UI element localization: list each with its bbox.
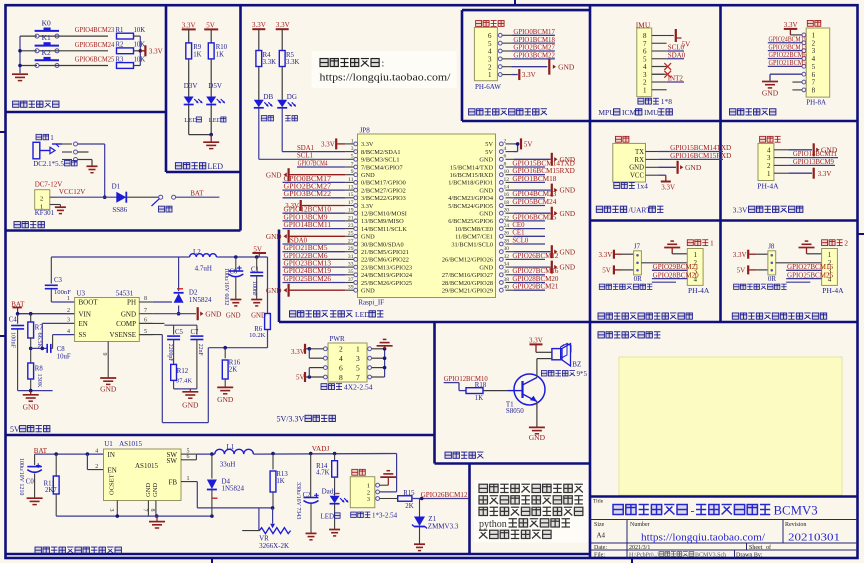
svg-text:10K: 10K xyxy=(134,27,146,34)
ground - buzzer xyxy=(529,427,546,441)
JP8 pin 11 (left) xyxy=(345,177,405,187)
capacitor C5 xyxy=(167,329,184,362)
svg-text:26/BCM12/GPIO26: 26/BCM12/GPIO26 xyxy=(442,257,493,264)
svg-text:35: 35 xyxy=(348,269,354,275)
block border - central right edge / right column divider xyxy=(589,6,592,558)
svg-text:A4: A4 xyxy=(597,532,606,540)
svg-text:9/BCM3/SCL1: 9/BCM3/SCL1 xyxy=(361,157,400,164)
svg-text:28: 28 xyxy=(504,238,510,244)
connector JP8 Raspi_IF body xyxy=(358,126,496,306)
svg-text:1: 1 xyxy=(351,138,354,144)
svg-text:6: 6 xyxy=(144,318,147,324)
resistor R10 xyxy=(208,43,227,59)
label IMU net xyxy=(636,20,651,29)
svg-text:54531: 54531 xyxy=(116,289,134,297)
svg-text:1: 1 xyxy=(828,251,832,259)
svg-text:39: 39 xyxy=(348,285,354,291)
svg-text:GND: GND xyxy=(479,187,493,194)
svg-text:GND: GND xyxy=(266,171,282,179)
BT pin VCC xyxy=(630,173,658,180)
svg-text:14/BCM11/SCLK: 14/BCM11/SCLK xyxy=(361,226,407,233)
junction rail C6 xyxy=(234,255,238,259)
svg-text:22: 22 xyxy=(504,215,510,221)
svg-text:D3V: D3V xyxy=(184,82,198,90)
caption servo block xyxy=(35,547,121,553)
svg-text:GPIO2BCM27: GPIO2BCM27 xyxy=(513,45,555,52)
PWR pin 3 xyxy=(356,354,372,363)
svg-text:13/BCM9/MISO: 13/BCM9/MISO xyxy=(361,218,404,225)
JP8 pin 2 (right) xyxy=(485,138,514,148)
JP8 pin 22 (right) xyxy=(448,215,514,225)
svg-text:PH-4A: PH-4A xyxy=(688,286,710,295)
connector BT header body xyxy=(613,143,646,182)
svg-text:1: 1 xyxy=(694,251,698,259)
JP8 pin 20 (right) xyxy=(479,208,514,218)
caption raspi block xyxy=(290,310,384,319)
JP8 pin 3 (left) xyxy=(345,146,400,156)
svg-text:GPIO24BCM19: GPIO24BCM19 xyxy=(284,268,332,275)
resistor R12 xyxy=(171,340,193,389)
connector PH-8A body xyxy=(806,28,830,106)
svg-text:C2: C2 xyxy=(303,492,312,499)
caption button block xyxy=(13,101,59,107)
net label BAT (servo) xyxy=(34,447,48,455)
svg-text:C4: C4 xyxy=(9,316,18,323)
wire J7 out to encoder1 xyxy=(641,262,687,264)
PH-6AW pin 3 xyxy=(488,55,511,63)
junction PH node xyxy=(177,300,181,304)
label Dadj LED red xyxy=(321,512,341,520)
svg-text:/UART: /UART xyxy=(629,205,651,214)
svg-text:GPIO25BCM26: GPIO25BCM26 xyxy=(284,276,332,283)
svg-text:2K: 2K xyxy=(405,503,413,510)
svg-text:3.3V: 3.3V xyxy=(182,21,196,29)
wire jack pin3 to ground xyxy=(78,160,92,166)
IMU pin 5 xyxy=(643,55,667,63)
net label GPIO25BCM26 xyxy=(283,276,346,283)
resistor R2 xyxy=(116,42,146,54)
capacitor C2 electrolytic xyxy=(295,454,319,533)
svg-text:0R: 0R xyxy=(768,275,777,283)
BT pin TX xyxy=(635,149,658,156)
svg-text:R18: R18 xyxy=(475,382,487,389)
svg-text:10K: 10K xyxy=(134,42,146,49)
svg-text:1K: 1K xyxy=(475,395,483,402)
ground - KF301 xyxy=(55,207,66,213)
svg-text:GND: GND xyxy=(361,234,375,241)
wire switch node riser xyxy=(178,257,180,314)
JP8 pin 24 (right) xyxy=(455,223,514,233)
power 3.3V - LED block xyxy=(182,21,196,43)
JP8 pin 21 (left) xyxy=(345,215,404,225)
svg-text:GPIO2BCM27: GPIO2BCM27 xyxy=(284,184,332,191)
wire PWR right bus xyxy=(372,347,387,377)
svg-text:32: 32 xyxy=(504,254,510,260)
label LED red D3V xyxy=(184,117,201,124)
ground - DC jack xyxy=(87,166,98,172)
net label GPIO1BCM18 xyxy=(512,176,557,183)
label servo net xyxy=(352,469,366,475)
no-connect IMU pin3 xyxy=(652,71,671,78)
svg-text:3: 3 xyxy=(351,146,354,152)
svg-text:Sheet: Sheet xyxy=(749,545,763,551)
power 3.3V - IR pin1 xyxy=(511,69,536,80)
svg-text:0R: 0R xyxy=(634,275,643,283)
junction VADJ C2 xyxy=(309,452,313,456)
svg-text:2021/3/1: 2021/3/1 xyxy=(629,545,650,551)
resistor R8 xyxy=(28,363,44,391)
label PWR socket xyxy=(321,383,373,392)
PH-8A pin 4 xyxy=(802,55,816,63)
svg-text:R3: R3 xyxy=(116,56,125,63)
power 5V - LED block xyxy=(204,21,218,43)
wire R4 to LED xyxy=(258,67,260,100)
net label CE0 xyxy=(512,222,545,229)
svg-text:2K: 2K xyxy=(229,367,237,374)
svg-text:3/BCM22/GPIO3: 3/BCM22/GPIO3 xyxy=(361,195,406,202)
net label GPIO23BCM13 (motor) xyxy=(768,44,807,51)
svg-text:PH-4A: PH-4A xyxy=(757,181,779,190)
power 3.3V - BT VCC xyxy=(658,175,675,191)
transistor T1 S8050 xyxy=(506,374,545,415)
U1 pin 6 SW xyxy=(167,454,197,465)
caption encoder1 block xyxy=(598,313,692,319)
svg-text:TX: TX xyxy=(635,149,644,156)
wire R7-R8 divider xyxy=(30,338,32,363)
jumper resistor J8 0R xyxy=(768,242,777,283)
svg-text:SDA0: SDA0 xyxy=(668,51,686,59)
svg-text:GND: GND xyxy=(479,211,493,218)
svg-text:LED: LED xyxy=(184,117,197,124)
label IMU socket xyxy=(638,97,672,106)
power 3.3V - PWR xyxy=(291,344,323,358)
JP8 pin 39 (left) xyxy=(345,285,375,295)
svg-text:GPIO5BCM24: GPIO5BCM24 xyxy=(75,42,115,49)
connector KF301 xyxy=(35,190,61,211)
BT pin RX xyxy=(635,157,659,164)
wire LED D5V down xyxy=(210,105,212,135)
svg-text:100nF: 100nF xyxy=(251,281,257,297)
regulator U1 AS1015 body xyxy=(104,440,182,501)
LED Dadj xyxy=(322,487,349,529)
svg-text:24: 24 xyxy=(504,223,510,229)
U3 pin 4 SS xyxy=(67,329,86,339)
capacitor C8 xyxy=(47,335,74,361)
power 5V - J8 xyxy=(737,265,768,274)
wire EN tap xyxy=(31,323,75,348)
svg-text:3.3V: 3.3V xyxy=(291,348,305,356)
svg-text:D5V: D5V xyxy=(208,82,222,90)
power GND - JP8 pin20 xyxy=(514,207,575,220)
JP8 pin 34 (right) xyxy=(479,262,514,272)
svg-text:10: 10 xyxy=(504,169,510,175)
svg-text:5V: 5V xyxy=(10,425,20,434)
svg-text:C7: C7 xyxy=(191,329,200,336)
svg-text:3: 3 xyxy=(67,318,70,324)
svg-text:GPIO26BCM12: GPIO26BCM12 xyxy=(512,253,559,260)
svg-text:1: 1 xyxy=(488,71,492,79)
svg-text:23: 23 xyxy=(348,223,354,229)
svg-text:1: 1 xyxy=(67,296,70,302)
connector IMU header body xyxy=(637,28,652,97)
svg-text:GPIO1BCM18: GPIO1BCM18 xyxy=(513,37,555,44)
caption 5V regulator block xyxy=(10,425,50,434)
svg-text:5V: 5V xyxy=(524,141,533,149)
svg-text:7: 7 xyxy=(356,373,360,382)
svg-text:31/BCM1/SCL0: 31/BCM1/SCL0 xyxy=(451,241,493,248)
connector encoder2 PH-4A body xyxy=(822,239,849,295)
svg-text:3: 3 xyxy=(767,154,771,162)
U3 pad pin 9 xyxy=(101,342,108,378)
JP8 pin 1 (left) xyxy=(345,138,374,148)
IMU pin 8 xyxy=(643,32,667,40)
svg-text:SCL1: SCL1 xyxy=(297,153,313,160)
IMU pin1 stub xyxy=(0,0,1,1)
net label VADJ xyxy=(312,445,330,453)
wire R3 to 3.3V rail xyxy=(134,65,141,67)
JP8 pin 33 (left) xyxy=(345,262,412,272)
svg-text:VCC12V: VCC12V xyxy=(59,188,85,196)
net label GPIO7BCM4 xyxy=(297,160,345,167)
junction U1 gnd xyxy=(155,514,159,518)
svg-text:VIN: VIN xyxy=(79,310,91,318)
ground - U3 pad xyxy=(100,378,117,394)
svg-text:PH-8A: PH-8A xyxy=(806,98,826,106)
svg-text:1N5824: 1N5824 xyxy=(222,485,245,493)
PWR pin 5 xyxy=(356,363,372,372)
svg-text:J8: J8 xyxy=(768,242,775,250)
svg-text:GND: GND xyxy=(479,157,493,164)
IMU pin 7 xyxy=(643,40,667,48)
svg-text:R12: R12 xyxy=(177,368,189,375)
svg-text:INT2: INT2 xyxy=(668,75,684,83)
wire R1 to 3.3V rail xyxy=(134,35,141,37)
svg-text:GPIO28BCM20: GPIO28BCM20 xyxy=(512,276,559,283)
JP8 pin 4 (right) xyxy=(485,146,514,156)
svg-text:KF301: KF301 xyxy=(35,209,55,217)
PWR pin 4 xyxy=(324,354,344,363)
svg-text:3.3V: 3.3V xyxy=(361,141,374,148)
svg-text:1N5824: 1N5824 xyxy=(189,296,212,304)
label ultrasonic net xyxy=(760,136,781,142)
svg-text:3: 3 xyxy=(367,496,370,503)
JP8 pin 25 (left) xyxy=(345,231,375,241)
power 5V - JP8 pins 2 and 4 xyxy=(514,138,532,151)
ground - C0 xyxy=(27,498,43,504)
svg-text:1K: 1K xyxy=(216,51,224,58)
svg-text:3.3V: 3.3V xyxy=(733,205,748,214)
label bluetooth net xyxy=(615,136,629,142)
block border - right column inner divider xyxy=(719,6,722,323)
svg-text:5: 5 xyxy=(351,154,354,160)
svg-text:LED: LED xyxy=(209,117,222,124)
ground earth - encoder2 xyxy=(799,241,822,254)
net label GPIO16BCM15RXD (BT) xyxy=(658,153,731,160)
encoder2 pin 2 xyxy=(828,259,832,267)
svg-text:2200pF: 2200pF xyxy=(167,344,173,362)
svg-text:GND: GND xyxy=(479,264,493,271)
svg-text:IMU: IMU xyxy=(644,108,659,117)
US pin 2 xyxy=(767,162,788,170)
wire K2 to resistor xyxy=(39,65,108,67)
PH-8A pin 8 xyxy=(802,87,816,95)
svg-text:GPIO3BCM22: GPIO3BCM22 xyxy=(284,191,332,198)
net label SCL0 (IMU) xyxy=(667,44,685,52)
JP8 pin 18 (right) xyxy=(448,200,514,210)
JP8 pin 32 (right) xyxy=(442,254,514,264)
svg-text:3.3V: 3.3V xyxy=(276,21,290,29)
net label GPIO5BCM24 xyxy=(75,42,115,49)
svg-text:SDA1: SDA1 xyxy=(297,145,314,152)
power GND - IR pin2 xyxy=(511,59,575,75)
junction VADJ R13 xyxy=(271,452,275,456)
U3 pin 2 VIN xyxy=(67,308,91,318)
caption motor block xyxy=(730,109,776,115)
caption US block xyxy=(733,205,803,214)
svg-text:10/BCM8/CE0: 10/BCM8/CE0 xyxy=(455,226,493,233)
svg-text:3.3K: 3.3K xyxy=(263,59,276,66)
net label GPIO13BCM9 (US) xyxy=(788,159,835,166)
PWR pin 2 xyxy=(324,345,344,354)
push button K1 xyxy=(35,33,59,53)
net label GPIO12BCM10 (buzzer) xyxy=(444,376,489,390)
capacitor C0 electrolytic xyxy=(18,458,42,498)
ground - motor block xyxy=(762,82,779,98)
JP8 pin 10 (right) xyxy=(450,169,514,179)
svg-text:GND: GND xyxy=(121,310,136,318)
PH-8A pin 3 xyxy=(802,47,816,55)
wire VADJ to servo pin2 xyxy=(380,454,397,492)
wire J8 out to encoder2 xyxy=(776,262,822,264)
svg-text:K2: K2 xyxy=(42,48,51,57)
junction 3.3V riser xyxy=(139,49,143,53)
block border - servo/note bottom xyxy=(6,553,591,556)
svg-text:29: 29 xyxy=(348,246,354,252)
inductor L2 xyxy=(190,248,217,272)
label battery1 xyxy=(36,134,54,142)
JP8 pin 27 (left) xyxy=(345,238,403,248)
svg-text:GND: GND xyxy=(560,187,576,195)
ground - C6 xyxy=(226,300,241,320)
wire VCC12V rail xyxy=(56,196,117,198)
wire EN riser xyxy=(87,454,103,470)
diode D1 xyxy=(112,183,128,215)
svg-text:Dadj: Dadj xyxy=(322,487,336,495)
svg-text:10.2K: 10.2K xyxy=(249,332,266,339)
block border - battery block xyxy=(6,229,241,232)
svg-text:6: 6 xyxy=(812,71,816,79)
svg-text:3.3V: 3.3V xyxy=(818,170,832,178)
svg-text:GND: GND xyxy=(266,287,282,295)
svg-text:2: 2 xyxy=(812,39,816,47)
svg-text:5: 5 xyxy=(812,63,816,71)
svg-text:PH-4A: PH-4A xyxy=(822,286,844,295)
net label SDA1 xyxy=(297,145,314,152)
svg-text:GPIO5BCM24: GPIO5BCM24 xyxy=(512,199,557,206)
svg-text:Revision: Revision xyxy=(785,522,806,528)
svg-text:14: 14 xyxy=(504,185,510,191)
net label GPIO2BCM27 (IR) xyxy=(511,45,555,52)
svg-text:18: 18 xyxy=(504,200,510,206)
svg-text:33uH: 33uH xyxy=(220,461,236,469)
svg-text:6: 6 xyxy=(339,363,343,372)
svg-text:GND: GND xyxy=(152,483,159,497)
power GND - JP8 pin6 xyxy=(514,153,575,166)
ground - R16 xyxy=(217,387,234,404)
U1 pin 2 EN xyxy=(95,464,117,475)
caption encoder2 block xyxy=(732,313,826,319)
frame zone tick left 2 xyxy=(0,335,6,337)
svg-text:11: 11 xyxy=(348,177,354,183)
svg-text:R13: R13 xyxy=(276,471,288,478)
buzzer BZ xyxy=(552,344,581,369)
wire DG to SDA1 pin3 xyxy=(282,108,345,151)
power 3.3V - buzzer xyxy=(529,337,552,353)
svg-text:GPIO1BCM18: GPIO1BCM18 xyxy=(512,176,557,183)
svg-text:4/BCM23/GPIO4: 4/BCM23/GPIO4 xyxy=(448,195,494,202)
potentiometer VR 3266X-2K xyxy=(242,508,290,550)
ground - C2 xyxy=(306,533,317,539)
svg-text:330u/16V 7343: 330u/16V 7343 xyxy=(295,482,301,519)
U1 pin 4 IN xyxy=(95,448,115,459)
power 3.3V - JP8 pin1 xyxy=(321,138,345,149)
power GND - JP8 pin9 xyxy=(266,168,345,181)
svg-text:C8: C8 xyxy=(57,346,66,353)
svg-text:34: 34 xyxy=(504,262,510,268)
svg-text:36: 36 xyxy=(504,269,510,275)
IMU pin 3 xyxy=(643,71,667,79)
svg-text:GPIO23BCM13: GPIO23BCM13 xyxy=(284,261,332,268)
ground - button block xyxy=(12,74,28,80)
svg-text:1K: 1K xyxy=(193,51,201,58)
PH-6AW pin 5 xyxy=(488,40,511,48)
svg-text:C5: C5 xyxy=(175,329,184,336)
svg-text:GPIO12BCM10: GPIO12BCM10 xyxy=(284,207,332,214)
block border - central left edge xyxy=(278,230,281,323)
svg-text:GPIO22BCM6: GPIO22BCM6 xyxy=(284,253,329,260)
svg-text:5V: 5V xyxy=(485,141,493,148)
wire R2 to 3.3V rail xyxy=(134,50,141,52)
svg-text:L2: L2 xyxy=(193,248,201,256)
svg-text:python: python xyxy=(479,519,507,530)
svg-text:3: 3 xyxy=(488,55,492,63)
svg-text:GND: GND xyxy=(182,400,199,409)
JP8 pin 13 (left) xyxy=(345,185,405,195)
PWR pin 8 xyxy=(324,373,344,382)
caption IR block xyxy=(469,109,547,115)
title block frame xyxy=(590,497,858,559)
svg-text:27/BCM16/GPIO27: 27/BCM16/GPIO27 xyxy=(442,272,493,279)
wire servo pin3 xyxy=(380,498,398,500)
svg-text:GND: GND xyxy=(361,288,375,295)
JP8 pin 19 (left) xyxy=(345,208,407,218)
block border - note block left xyxy=(468,464,471,555)
svg-text:GPIO22BCM6: GPIO22BCM6 xyxy=(769,52,808,59)
svg-text:3.3V: 3.3V xyxy=(522,71,536,79)
JP8 pin 7 (left) xyxy=(345,161,402,171)
svg-text:16: 16 xyxy=(504,192,510,198)
U1 pins 7 8 GND xyxy=(142,483,160,516)
JP8 pin 9 (left) xyxy=(345,169,375,179)
block border - encoder row bottom / central bottom xyxy=(279,321,858,324)
svg-text:DC2.1*5.5: DC2.1*5.5 xyxy=(33,160,64,168)
svg-text:1: 1 xyxy=(767,170,771,178)
svg-text:15: 15 xyxy=(348,192,354,198)
net label SCL0 xyxy=(512,237,545,244)
svg-text:DB: DB xyxy=(263,93,273,101)
svg-text:GPIO3BCM22: GPIO3BCM22 xyxy=(513,52,555,59)
net label BAT (5V reg) xyxy=(11,300,25,313)
